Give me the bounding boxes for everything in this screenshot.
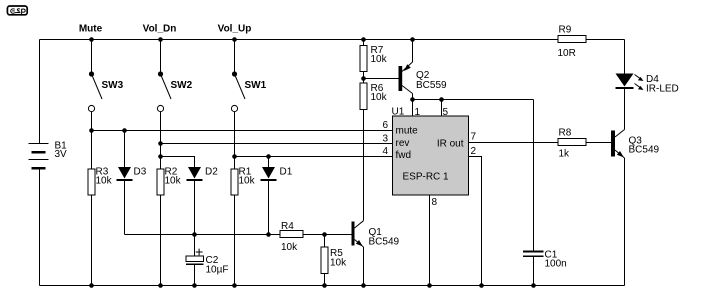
svg-text:10k: 10k [330, 258, 347, 269]
svg-text:1k: 1k [559, 149, 571, 160]
svg-text:R9: R9 [559, 25, 572, 36]
svg-text:6: 6 [382, 120, 388, 131]
svg-text:10k: 10k [281, 242, 298, 253]
svg-text:Vol_Up: Vol_Up [218, 24, 252, 35]
svg-text:100n: 100n [545, 259, 567, 270]
svg-text:10k: 10k [239, 176, 256, 187]
svg-text:Mute: Mute [79, 24, 103, 35]
svg-text:BC549: BC549 [629, 145, 660, 156]
svg-text:8: 8 [432, 197, 438, 208]
svg-text:SW2: SW2 [171, 80, 193, 91]
svg-text:2: 2 [471, 146, 477, 157]
svg-text:10k: 10k [371, 92, 388, 103]
svg-text:10k: 10k [96, 176, 113, 187]
svg-text:R4: R4 [281, 221, 294, 232]
svg-text:Vol_Dn: Vol_Dn [143, 24, 177, 35]
svg-text:10k: 10k [371, 54, 388, 65]
svg-text:10k: 10k [165, 176, 182, 187]
svg-text:D2: D2 [205, 167, 218, 178]
svg-text:R8: R8 [559, 128, 572, 139]
svg-text:IR-LED: IR-LED [646, 84, 679, 95]
svg-text:D3: D3 [134, 167, 147, 178]
svg-text:rev: rev [396, 138, 410, 149]
svg-text:IR out: IR out [437, 139, 464, 150]
svg-text:mute: mute [396, 125, 419, 136]
svg-text:10R: 10R [558, 48, 576, 59]
svg-text:BC559: BC559 [416, 80, 447, 91]
svg-text:10µF: 10µF [206, 265, 229, 276]
svg-text:SW3: SW3 [102, 80, 124, 91]
svg-text:4: 4 [382, 146, 388, 157]
svg-text:D1: D1 [280, 167, 293, 178]
svg-text:SW1: SW1 [245, 80, 267, 91]
svg-text:fwd: fwd [396, 150, 412, 161]
svg-text:3V: 3V [55, 149, 68, 160]
svg-text:7: 7 [471, 132, 477, 143]
svg-text:3: 3 [382, 134, 388, 145]
svg-text:ESP-RC 1: ESP-RC 1 [403, 172, 450, 183]
svg-text:BC549: BC549 [369, 237, 400, 248]
